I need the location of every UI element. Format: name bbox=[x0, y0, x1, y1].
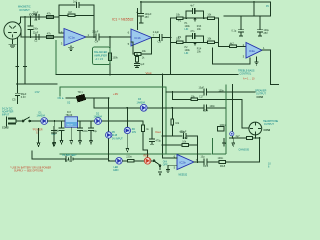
ground tick bbox=[139, 22, 143, 24]
svg-text:100n: 100n bbox=[220, 123, 227, 127]
wire TR1 corner down bbox=[93, 98, 95, 108]
svg-text:4µ7: 4µ7 bbox=[236, 135, 241, 138]
resistor 220 bbox=[128, 160, 135, 163]
svg-text:5V INPUT: 5V INPUT bbox=[112, 137, 123, 140]
pin number and value labels bbox=[12, 19, 265, 170]
diode D1 bbox=[41, 118, 48, 125]
svg-text:25V: 25V bbox=[264, 32, 269, 35]
switch S1 bbox=[23, 117, 41, 121]
resistor to gnd bbox=[136, 54, 138, 57]
svg-text:1.5V: 1.5V bbox=[35, 91, 40, 94]
ground below op-amp IC1A bbox=[69, 46, 74, 51]
wire supply drop to cap bbox=[140, 2, 142, 23]
svg-text:P1: P1 bbox=[178, 19, 182, 23]
wire CON1 pin drop A bbox=[16, 38, 18, 84]
row 2 bass bbox=[171, 41, 219, 43]
connector CON3 DIN bbox=[249, 122, 262, 135]
svg-text:OFF: OFF bbox=[163, 164, 168, 167]
capacitor C4 bbox=[96, 34, 99, 40]
svg-text:IC1b: IC1b bbox=[135, 36, 141, 40]
svg-text:RED: RED bbox=[144, 154, 149, 157]
svg-text:22µF: 22µF bbox=[33, 31, 39, 34]
svg-text:9V: 9V bbox=[266, 5, 269, 8]
svg-text:CON5: CON5 bbox=[257, 96, 264, 99]
feedback verticals bbox=[163, 136, 198, 162]
transistor TR1 bbox=[77, 95, 86, 102]
svg-text:100p: 100p bbox=[180, 131, 186, 134]
svg-text:100k: 100k bbox=[113, 57, 119, 60]
wire feedback cap branch bbox=[59, 4, 94, 6]
svg-text:IC2a: IC2a bbox=[249, 49, 255, 53]
svg-text:+9V: +9V bbox=[113, 92, 118, 96]
wire into minus input bbox=[59, 32, 64, 34]
svg-text:BT1: BT1 bbox=[65, 159, 71, 163]
box stage outline bbox=[55, 40, 57, 75]
zener drop bbox=[126, 108, 128, 128]
svg-text:A = 1.5: A = 1.5 bbox=[96, 58, 104, 61]
cap bank 3 bbox=[89, 121, 94, 144]
wire branch v x172.3 lower with resistor bbox=[171, 108, 173, 136]
wire R to LED2 bbox=[134, 160, 144, 162]
wire vert to opamp top bbox=[136, 9, 138, 30]
vertical IC feed bbox=[108, 98, 110, 161]
cap bank 1 bbox=[59, 121, 64, 144]
svg-text:DI INPUT: DI INPUT bbox=[20, 9, 31, 12]
supply rail right bbox=[224, 15, 271, 17]
svg-text:IC1 = NE5532: IC1 = NE5532 bbox=[112, 18, 134, 22]
feedback res branch bbox=[163, 144, 198, 146]
svg-text:A = 1 ... 10: A = 1 ... 10 bbox=[243, 78, 255, 81]
capacitor C1 bbox=[36, 15, 39, 20]
wire jack to switch bbox=[16, 120, 23, 122]
svg-text:C12: C12 bbox=[183, 136, 189, 140]
wire feedback res branch bbox=[59, 14, 94, 16]
ground bus bbox=[17, 83, 58, 85]
resistor R1 bbox=[47, 16, 54, 19]
svg-text:100n: 100n bbox=[210, 105, 216, 108]
svg-text:Vout: Vout bbox=[155, 130, 161, 134]
bus y74.5 bbox=[56, 74, 238, 76]
capacitor 100n branch bbox=[28, 26, 33, 30]
op-amp IC1A bbox=[64, 29, 86, 46]
wire output IC1A bbox=[86, 36, 131, 38]
resistor chassis bbox=[246, 137, 252, 140]
svg-text:C6: C6 bbox=[158, 40, 162, 44]
wire into opamp3 bbox=[218, 45, 246, 47]
svg-text:R18: R18 bbox=[220, 164, 226, 168]
svg-text:P2: P2 bbox=[178, 35, 182, 39]
svg-text:1N4004: 1N4004 bbox=[37, 114, 46, 117]
svg-text:IC1a: IC1a bbox=[69, 36, 75, 40]
op-amp IC2a bbox=[246, 43, 262, 59]
pot wiper row2 bbox=[194, 42, 196, 45]
wire left of TR1 bbox=[66, 97, 76, 99]
zener D4 bbox=[124, 127, 130, 133]
wire feedback left vertical bbox=[58, 17, 60, 33]
small component box bbox=[218, 127, 225, 132]
wire LED1 to R bbox=[122, 160, 127, 162]
pin marks bbox=[16, 66, 26, 68]
wire W1 bbox=[21, 16, 60, 18]
pot wiper row1 bbox=[194, 18, 196, 21]
svg-text:25V: 25V bbox=[145, 16, 150, 19]
feedback opamp3 bbox=[212, 48, 250, 64]
svg-text:CONTROL: CONTROL bbox=[240, 72, 252, 75]
svg-text:0.1µ: 0.1µ bbox=[232, 29, 237, 32]
svg-text:22µF: 22µF bbox=[33, 11, 39, 14]
ground at IC2B plus input bbox=[166, 165, 177, 172]
wire CON1 pin drop B bbox=[24, 17, 26, 84]
wire tone left vertical bbox=[170, 18, 172, 74]
svg-text:1µF: 1µF bbox=[140, 63, 145, 66]
resistor R2 bbox=[47, 36, 54, 39]
capacitor 100n on D3 row bbox=[204, 105, 206, 111]
optional power drops bbox=[37, 129, 40, 147]
wire output IC1B bbox=[152, 37, 171, 39]
row1 cap branch bbox=[186, 11, 204, 18]
regulator IC3 78L09 bbox=[65, 117, 78, 127]
LED1 bbox=[116, 158, 123, 165]
capacitor chassis node bbox=[230, 132, 234, 136]
svg-text:OUTPUT: OUTPUT bbox=[264, 123, 274, 126]
svg-text:C17: C17 bbox=[199, 95, 204, 98]
svg-text:C5: C5 bbox=[12, 98, 16, 102]
svg-text:C14: C14 bbox=[203, 109, 209, 113]
connector CON1 DIN socket bbox=[4, 22, 21, 39]
cap decoupling B bbox=[258, 16, 263, 36]
rail to regulator bbox=[48, 120, 65, 122]
svg-text:100n: 100n bbox=[219, 89, 225, 92]
svg-text:78L09: 78L09 bbox=[67, 125, 74, 127]
op-amp IC1B bbox=[131, 29, 152, 46]
connector CON2 jack bbox=[8, 118, 16, 120]
wire feedback right vertical bbox=[93, 5, 95, 37]
capacitor C6 bbox=[159, 35, 162, 41]
wire output opamp3 down bbox=[262, 50, 279, 84]
cap decoupling A bbox=[239, 16, 244, 36]
regulator gnd pin bbox=[70, 127, 73, 144]
svg-text:IC2b: IC2b bbox=[180, 160, 186, 164]
svg-text:SUPPLY — SEE OPTIONS: SUPPLY — SEE OPTIONS bbox=[14, 169, 44, 172]
switch S2 bbox=[154, 161, 160, 170]
chassis row bbox=[230, 135, 260, 138]
supply rail top bbox=[141, 1, 271, 3]
gnd arrows in box bbox=[223, 139, 235, 147]
CON1 pins bbox=[9, 26, 17, 37]
svg-text:470µ: 470µ bbox=[156, 140, 162, 143]
capacitor 10uF on vout row bbox=[204, 89, 206, 95]
op-amp IC2b bbox=[177, 155, 194, 170]
svg-text:C4: C4 bbox=[95, 39, 99, 43]
wire to LED1 bbox=[109, 160, 116, 162]
svg-text:9V BATTERY: 9V BATTERY bbox=[62, 154, 77, 157]
svg-text:1N4004: 1N4004 bbox=[94, 116, 103, 119]
cap bank 2 bbox=[78, 121, 83, 144]
svg-text:10µF: 10µF bbox=[199, 87, 205, 90]
row 1 treble bbox=[171, 17, 219, 19]
feedback cap branch bbox=[163, 135, 198, 137]
resistor R3 bbox=[68, 14, 75, 17]
svg-text:100Ω: 100Ω bbox=[218, 157, 224, 160]
wire 100n branch vertical bbox=[30, 17, 32, 37]
svg-text:10µ: 10µ bbox=[201, 156, 206, 159]
wire CON1 lower pin to W2 bbox=[20, 31, 22, 38]
gnd query bbox=[159, 172, 162, 176]
ground below CON1 bbox=[12, 39, 14, 44]
box C outline bbox=[212, 85, 226, 154]
svg-text:1M: 1M bbox=[68, 11, 71, 14]
wire right vertical bbox=[217, 18, 219, 46]
svg-text:4k7: 4k7 bbox=[230, 42, 235, 45]
wire vout row to speaker bbox=[166, 91, 255, 93]
cap 470u bbox=[150, 128, 155, 144]
svg-text:2.2µF: 2.2µF bbox=[92, 31, 99, 34]
capacitor C3 bbox=[76, 2, 78, 7]
diode D5 bbox=[106, 132, 112, 138]
wire branch v x172.3 upper bbox=[171, 92, 173, 99]
feedback loop below IC1B bbox=[131, 38, 152, 55]
svg-text:78L09: 78L09 bbox=[66, 114, 73, 117]
resistor 10k fb bbox=[135, 53, 142, 56]
chassis vertical bbox=[232, 85, 234, 139]
wire R load vertical bbox=[109, 37, 111, 53]
svg-text:Vout: Vout bbox=[146, 71, 152, 75]
vertical signal to IC2B bbox=[162, 75, 164, 159]
capacitor 100u decoupling bbox=[139, 13, 144, 16]
wire CON1 top pin to W1 bbox=[19, 17, 21, 25]
svg-text:GRN: GRN bbox=[113, 169, 119, 172]
svg-text:CON3: CON3 bbox=[264, 129, 271, 132]
row2 cap branch bbox=[186, 36, 204, 42]
svg-text:INPUT: INPUT bbox=[2, 114, 10, 117]
battery cells bbox=[66, 156, 73, 162]
svg-text:47n: 47n bbox=[190, 30, 195, 33]
svg-text:220Ω: 220Ω bbox=[126, 156, 132, 159]
wire drop at 54 bbox=[53, 121, 56, 146]
battery line bbox=[32, 151, 109, 159]
svg-text:CHASSIS: CHASSIS bbox=[239, 149, 250, 152]
wire W2 bbox=[21, 36, 64, 38]
svg-text:100n: 100n bbox=[82, 130, 88, 133]
LED2 red bbox=[144, 158, 151, 165]
rail from regulator bbox=[78, 120, 143, 122]
output row bbox=[194, 138, 260, 162]
svg-text:10µ: 10µ bbox=[93, 130, 98, 133]
wire D3 row bbox=[94, 107, 166, 109]
svg-text:6.3V: 6.3V bbox=[21, 96, 26, 99]
svg-text:C15: C15 bbox=[203, 164, 209, 168]
wire headphone feed row bbox=[172, 98, 242, 100]
resistor 10k feed row bbox=[191, 98, 198, 101]
module box A bbox=[55, 40, 57, 75]
svg-text:2n2: 2n2 bbox=[73, 1, 78, 4]
svg-text:LIN: LIN bbox=[185, 28, 189, 31]
svg-text:TR 1: TR 1 bbox=[78, 91, 84, 94]
svg-text:4n7: 4n7 bbox=[190, 5, 195, 8]
capacitor C2 bbox=[36, 35, 39, 40]
wire right of TR1 bbox=[85, 97, 109, 99]
resistor 1k drop bbox=[142, 121, 144, 125]
headphone feed bbox=[242, 99, 249, 128]
box lower right bbox=[212, 85, 226, 154]
box B power outline bbox=[60, 87, 211, 154]
svg-text:1N4004: 1N4004 bbox=[137, 101, 146, 104]
ground symbol at bus bbox=[15, 84, 20, 103]
ground below op-amp IC2a bbox=[255, 57, 259, 65]
svg-text:100n: 100n bbox=[33, 28, 39, 31]
annotation box stage1 bbox=[93, 47, 111, 65]
svg-text:10V: 10V bbox=[132, 131, 137, 134]
svg-text:ON ➤: ON ➤ bbox=[58, 97, 64, 100]
node junction bbox=[109, 36, 111, 38]
svg-text:LIN: LIN bbox=[185, 52, 189, 55]
wire D3 row extension bbox=[166, 107, 227, 109]
diode D3 bbox=[140, 104, 147, 111]
svg-text:NE5532: NE5532 bbox=[179, 173, 188, 176]
diode D2 bbox=[95, 118, 102, 125]
svg-text:CON2: CON2 bbox=[2, 127, 9, 130]
wire LED2 to S2 bbox=[151, 160, 154, 162]
resistor 100k vertical bbox=[109, 53, 112, 61]
